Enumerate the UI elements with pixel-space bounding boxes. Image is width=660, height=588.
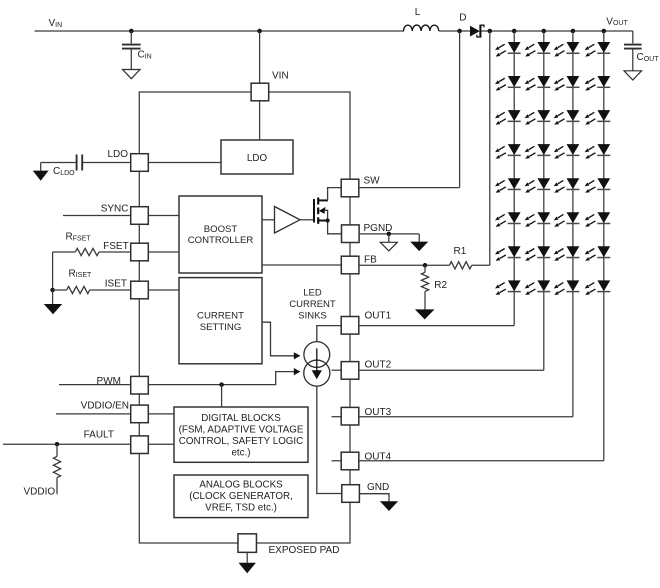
wire LED string 4	[603, 31, 605, 461]
C_LDO label	[53, 166, 75, 177]
junction LED string 4 top	[602, 29, 607, 34]
pin FSET	[131, 243, 149, 261]
pin VIN	[251, 83, 269, 101]
resistor R2	[421, 265, 428, 291]
R_FSET label	[66, 232, 92, 243]
pin FB	[341, 256, 359, 274]
svg-text:CURRENT: CURRENT	[289, 299, 336, 310]
IC boundary	[139, 92, 350, 543]
LED string 4 diode 8	[585, 280, 611, 295]
LED string 4 diode 5	[585, 178, 611, 193]
LED string 2 diode 3	[525, 110, 551, 125]
pin GND	[342, 485, 360, 503]
wire OUT2 to LED string 2	[359, 369, 544, 371]
ground for R2 (filled)	[415, 291, 435, 319]
OUT1 pin label	[365, 311, 392, 322]
svg-text:VOUT: VOUT	[606, 16, 628, 27]
svg-text:GND: GND	[367, 482, 389, 493]
LED string 2 diode 5	[525, 178, 551, 193]
resistor R_FSET	[75, 248, 99, 255]
svg-text:VREF, TSD etc.): VREF, TSD etc.)	[205, 503, 277, 514]
wire SYNC pin to boost controller	[148, 215, 179, 217]
wire C_LDO to LDO pin	[83, 162, 131, 164]
LDO block label	[247, 153, 268, 164]
wire FAULT to digital blocks	[148, 443, 174, 445]
LED string 3 diode 3	[554, 110, 580, 125]
inductor L	[404, 25, 439, 31]
svg-text:EXPOSED PAD: EXPOSED PAD	[269, 545, 340, 556]
wire OUT3 to LED string 3	[359, 416, 573, 418]
PWM pin label	[97, 376, 121, 387]
wire PGND to grounds	[359, 233, 419, 235]
L value label	[415, 7, 421, 18]
LED string 4 diode 7	[585, 246, 611, 261]
wire LED string 3	[572, 31, 574, 417]
stub into OUT2 pin	[332, 369, 342, 371]
wire VIN pin to LDO block	[259, 101, 261, 140]
LED string 4 diode 1	[585, 42, 611, 57]
ground at PGND (open)	[380, 234, 397, 251]
ground for C_OUT (open)	[624, 71, 642, 80]
C_IN label	[138, 50, 152, 61]
block ANALOG BLOCKS	[174, 475, 308, 518]
wire FAULT input	[3, 443, 131, 445]
svg-text:RISET: RISET	[69, 268, 93, 279]
LED string 4 diode 4	[585, 144, 611, 159]
junction LED string 1 top	[512, 29, 517, 34]
VDDIO/EN pin label	[81, 401, 129, 412]
wire VDDIO/EN to digital blocks	[148, 413, 174, 415]
wire ISET pin to current setting	[148, 289, 179, 291]
capacitor C_LDO	[41, 155, 82, 171]
LED string 2 diode 8	[525, 280, 551, 295]
wire LED string 1	[513, 31, 515, 326]
junction FSET/ISET resistors	[50, 288, 55, 293]
pin PWM	[131, 376, 149, 394]
current sink I2 (bottom circle)	[304, 360, 330, 386]
LED string 3 diode 7	[554, 246, 580, 261]
LED string 3 diode 1	[554, 42, 580, 57]
svg-text:LED: LED	[303, 288, 322, 299]
svg-text:BOOST: BOOST	[204, 224, 238, 235]
svg-text:ISET: ISET	[105, 279, 127, 290]
svg-text:VIN: VIN	[272, 71, 289, 82]
junction LED string 3 top	[571, 29, 576, 34]
junction PGND ground tap	[387, 232, 392, 237]
LED string 3 diode 4	[554, 144, 580, 159]
svg-text:CONTROL, SAFETY LOGIC: CONTROL, SAFETY LOGIC	[179, 436, 303, 447]
junction SW/diode anode	[457, 29, 462, 34]
wire R1 to VOUT sense	[472, 264, 490, 266]
LED string 1 diode 1	[495, 42, 521, 57]
wire R_ISET left	[53, 289, 67, 291]
DIGITAL BLOCKS label	[179, 413, 304, 459]
pin SW	[341, 179, 359, 197]
svg-text:SW: SW	[364, 176, 381, 187]
resistor VDDIO pull-up	[53, 444, 60, 494]
OUT3 pin label	[365, 407, 392, 418]
pin LDO	[131, 154, 149, 172]
svg-text:DIGITAL BLOCKS: DIGITAL BLOCKS	[201, 413, 281, 424]
svg-text:SETTING: SETTING	[200, 322, 242, 333]
pin OUT4	[341, 452, 359, 470]
wire PWM tap to digital blocks	[221, 385, 223, 407]
wire R_FSET to FSET pin	[99, 251, 131, 253]
D label	[459, 13, 466, 24]
wire SYNC input	[63, 215, 131, 217]
FAULT pin label	[84, 430, 114, 441]
LED string 1 diode 4	[495, 144, 521, 159]
junction FB divider	[423, 263, 428, 268]
wire FSET pin to boost controller	[148, 251, 179, 253]
ground for R_FSET/R_ISET (filled)	[44, 290, 62, 314]
LED string 3 diode 6	[554, 212, 580, 227]
pin OUT1	[341, 317, 359, 335]
LED string 1 diode 3	[495, 110, 521, 125]
arrow PWM into sink	[294, 368, 301, 375]
V_IN label	[49, 18, 63, 29]
svg-text:PWM: PWM	[97, 376, 121, 387]
junction diode cathode / FB sense	[488, 29, 493, 34]
wire diode anode to SW drop	[459, 31, 461, 188]
wire R_ISET to ISET pin	[90, 289, 131, 291]
svg-text:COUT: COUT	[637, 52, 660, 63]
wire gate driver to FET gate	[300, 219, 313, 221]
arrow current setting into sink	[294, 352, 301, 359]
wire V_OUT sense drop to R1	[489, 31, 491, 265]
LED string 2 diode 2	[525, 76, 551, 91]
EXPOSED PAD label	[269, 545, 340, 556]
stub into OUT3 pin	[332, 416, 342, 418]
wire GND pin to ground	[359, 494, 389, 502]
LED string 2 diode 7	[525, 246, 551, 261]
ground at GND pin (filled)	[380, 501, 398, 511]
wire FB to divider	[359, 264, 450, 266]
PGND pin label	[364, 223, 393, 234]
svg-text:LDO: LDO	[247, 153, 268, 164]
block CURRENT SETTING	[179, 278, 262, 364]
SYNC pin label	[101, 204, 129, 215]
BOOST CONTROLLER label	[188, 224, 254, 246]
capacitor C_IN	[122, 31, 141, 70]
VDDIO label	[24, 487, 56, 498]
pin VDDIO/EN	[131, 405, 149, 423]
current sink arrow	[312, 348, 322, 379]
LED CURRENT SINKS label	[289, 288, 336, 322]
svg-text:CONTROLLER: CONTROLLER	[188, 235, 254, 246]
svg-text:(FSM, ADAPTIVE VOLTAGE: (FSM, ADAPTIVE VOLTAGE	[179, 425, 304, 436]
junction C_IN tap	[129, 29, 134, 34]
LED string 2 diode 4	[525, 144, 551, 159]
gate driver buffer	[275, 207, 301, 234]
FB pin label	[364, 255, 377, 266]
diode D (schottky)	[470, 25, 484, 38]
LED string 1 diode 8	[495, 280, 521, 295]
CURRENT SETTING label	[197, 311, 244, 333]
LED string 2 diode 1	[525, 42, 551, 57]
pin ISET	[131, 281, 149, 299]
OUT2 pin label	[365, 359, 392, 370]
junction VIN pin tap	[257, 29, 262, 34]
SW pin label	[364, 176, 381, 187]
block BOOST CONTROLLER	[179, 196, 262, 273]
svg-text:FSET: FSET	[103, 241, 129, 252]
wire LDO pin to LDO block	[148, 162, 221, 164]
LED string 3 diode 5	[554, 178, 580, 193]
LED string 3 diode 8	[554, 280, 580, 295]
block LDO regulator	[221, 140, 293, 174]
junction LED string 2 top	[542, 29, 547, 34]
C_OUT label	[637, 52, 660, 63]
ground for C_IN (open)	[123, 70, 141, 79]
wire sink bottom to GND pin	[317, 386, 342, 493]
svg-text:VDDIO: VDDIO	[24, 487, 56, 498]
ground at PGND (filled)	[410, 234, 428, 251]
ISET pin label	[105, 279, 127, 290]
ANALOG BLOCKS label	[189, 480, 293, 514]
svg-text:L: L	[415, 7, 421, 18]
wire sink top to OUT1 pin	[317, 326, 341, 342]
svg-text:RFSET: RFSET	[66, 232, 92, 243]
resistor R1	[449, 262, 471, 269]
V_OUT label	[606, 16, 628, 27]
wire PWM input	[59, 384, 131, 386]
ground for exposed pad (filled)	[239, 552, 256, 573]
svg-text:OUT1: OUT1	[365, 311, 392, 322]
R1 label	[454, 246, 467, 257]
wire VDDIO/EN input	[56, 413, 131, 415]
LED string 3 diode 2	[554, 76, 580, 91]
svg-text:CIN: CIN	[138, 50, 152, 61]
LED string 1 diode 5	[495, 178, 521, 193]
svg-text:(CLOCK GENERATOR,: (CLOCK GENERATOR,	[189, 491, 293, 502]
svg-text:etc.): etc.)	[231, 448, 250, 459]
svg-text:FB: FB	[364, 255, 377, 266]
svg-text:FAULT: FAULT	[84, 430, 114, 441]
wire PWM to sink modulator	[148, 372, 294, 385]
pin EXPOSED PAD	[238, 534, 257, 553]
wire OUT1 to LED string 1	[359, 325, 514, 327]
wire VIN pin to top rail	[259, 31, 261, 83]
wire current setting to sink control	[262, 322, 294, 356]
stub into OUT4 pin	[332, 460, 342, 462]
wire FSET/ISET common	[52, 252, 54, 290]
pin OUT3	[341, 407, 359, 425]
svg-text:VIN: VIN	[49, 18, 63, 29]
node VIN net / top rail wire	[35, 30, 633, 32]
wire SW to diode	[359, 187, 460, 189]
wire boost to gate driver	[262, 219, 275, 221]
OUT4 pin label	[365, 452, 392, 463]
svg-text:SINKS: SINKS	[298, 311, 327, 322]
LED string 1 diode 2	[495, 76, 521, 91]
LED string 4 diode 3	[585, 110, 611, 125]
VIN pin label	[272, 71, 289, 82]
junction PWM to digital blocks	[219, 382, 224, 387]
LED string 1 diode 6	[495, 212, 521, 227]
pin SYNC	[131, 207, 149, 225]
R2 label	[434, 280, 447, 291]
capacitor C_OUT	[624, 31, 642, 71]
transistor M1 (NMOS)	[314, 188, 342, 234]
junction FAULT pull-up	[55, 442, 60, 447]
LED string 1 diode 7	[495, 246, 521, 261]
svg-text:R1: R1	[454, 246, 467, 257]
svg-text:CLDO: CLDO	[53, 166, 75, 177]
FSET pin label	[103, 241, 129, 252]
wire R_FSET left	[53, 251, 76, 253]
GND pin label	[367, 482, 389, 493]
LED string 4 diode 2	[585, 76, 611, 91]
svg-text:VDDIO/EN: VDDIO/EN	[81, 401, 129, 412]
wire boost controller to FB	[262, 264, 341, 266]
svg-text:SYNC: SYNC	[101, 204, 129, 215]
svg-text:D: D	[459, 13, 466, 24]
pin FAULT	[131, 436, 149, 454]
wire OUT4 to LED string 4	[359, 460, 604, 462]
pin OUT2	[341, 362, 359, 380]
LDO pin label	[107, 149, 128, 160]
svg-text:ANALOG BLOCKS: ANALOG BLOCKS	[199, 480, 283, 491]
wire LED string 2	[543, 31, 545, 370]
block DIGITAL BLOCKS	[174, 407, 308, 462]
svg-text:LDO: LDO	[107, 149, 128, 160]
R_ISET label	[69, 268, 93, 279]
svg-text:R2: R2	[434, 280, 447, 291]
ground for C_LDO (filled)	[33, 163, 49, 181]
current sink I1 (top circle)	[304, 342, 330, 368]
pin PGND	[342, 225, 360, 243]
LED string 4 diode 6	[585, 212, 611, 227]
svg-text:OUT2: OUT2	[365, 359, 392, 370]
resistor R_ISET	[67, 286, 90, 293]
LED string 2 diode 6	[525, 212, 551, 227]
svg-text:CURRENT: CURRENT	[197, 311, 244, 322]
